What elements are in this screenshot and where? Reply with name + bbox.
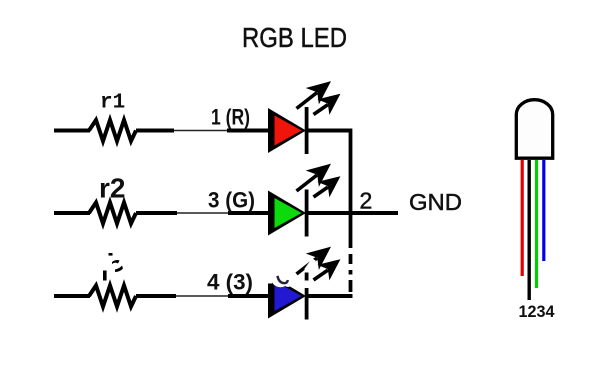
- wire: GND bus vertical (solid part): [349, 129, 353, 248]
- wire: r3 to LED D3 anode: [136, 294, 176, 298]
- watermark: white gap on D3 cathode bar: [303, 281, 311, 289]
- watermark: dark arc remnant inside blob: [278, 276, 288, 283]
- wire: D1 cathode to GND bus: [307, 129, 352, 133]
- svg-text:RGB LED: RGB LED: [242, 22, 347, 53]
- LED D1 light arrows: [297, 84, 338, 115]
- watermark: white slash through D3 arrow 1: [306, 260, 314, 271]
- RGB LED package body: [516, 100, 552, 159]
- LED D1 cathode bar: [305, 107, 309, 154]
- lead 1 (red, anode R): [521, 160, 524, 276]
- svg-text:1 (R): 1 (R): [211, 105, 250, 130]
- LED D2 light arrows: [297, 167, 338, 198]
- LED D1 (red) anode triangle: [268, 108, 306, 153]
- wire: input lead of r3: [54, 294, 90, 298]
- lead 4 (blue, anode B): [542, 160, 545, 261]
- label r3 (watermark-faded fragments): [103, 253, 123, 281]
- resistor r1: [89, 120, 136, 141]
- LED D2 (green) anode triangle: [268, 191, 306, 236]
- wire: D2 cathode through node 2 to GND stub: [307, 211, 398, 215]
- svg-text:GND: GND: [409, 189, 462, 215]
- wire: input lead of r2: [54, 211, 90, 215]
- wire: input lead of r1: [54, 129, 90, 133]
- LED D3 (blue) anode triangle: [268, 274, 306, 319]
- lead 3 (green, anode G): [535, 160, 538, 288]
- svg-text:r1: r1: [100, 92, 125, 115]
- LED D2 cathode bar: [305, 190, 309, 237]
- svg-text:r2: r2: [99, 173, 125, 204]
- svg-text:2: 2: [360, 188, 373, 214]
- wire: r1 to LED D1 anode: [136, 129, 174, 133]
- wire: D3 cathode to GND bus corner: [307, 294, 353, 298]
- wire: r2 to LED D2 anode: [136, 211, 177, 215]
- resistor r3: [89, 286, 136, 307]
- svg-text:4 (3): 4 (3): [207, 270, 253, 295]
- wire: GND bus vertical (watermark-dashed part): [349, 254, 353, 298]
- svg-text:3 (G): 3 (G): [208, 188, 255, 213]
- LED D3 light arrows: [297, 250, 338, 281]
- watermark: white blob over D3 triangle corner: [271, 268, 291, 288]
- svg-text:1234: 1234: [519, 303, 556, 321]
- LED D3 cathode bar: [305, 273, 309, 320]
- resistor r2: [89, 203, 136, 224]
- lead 2 (black, common cathode): [528, 160, 531, 300]
